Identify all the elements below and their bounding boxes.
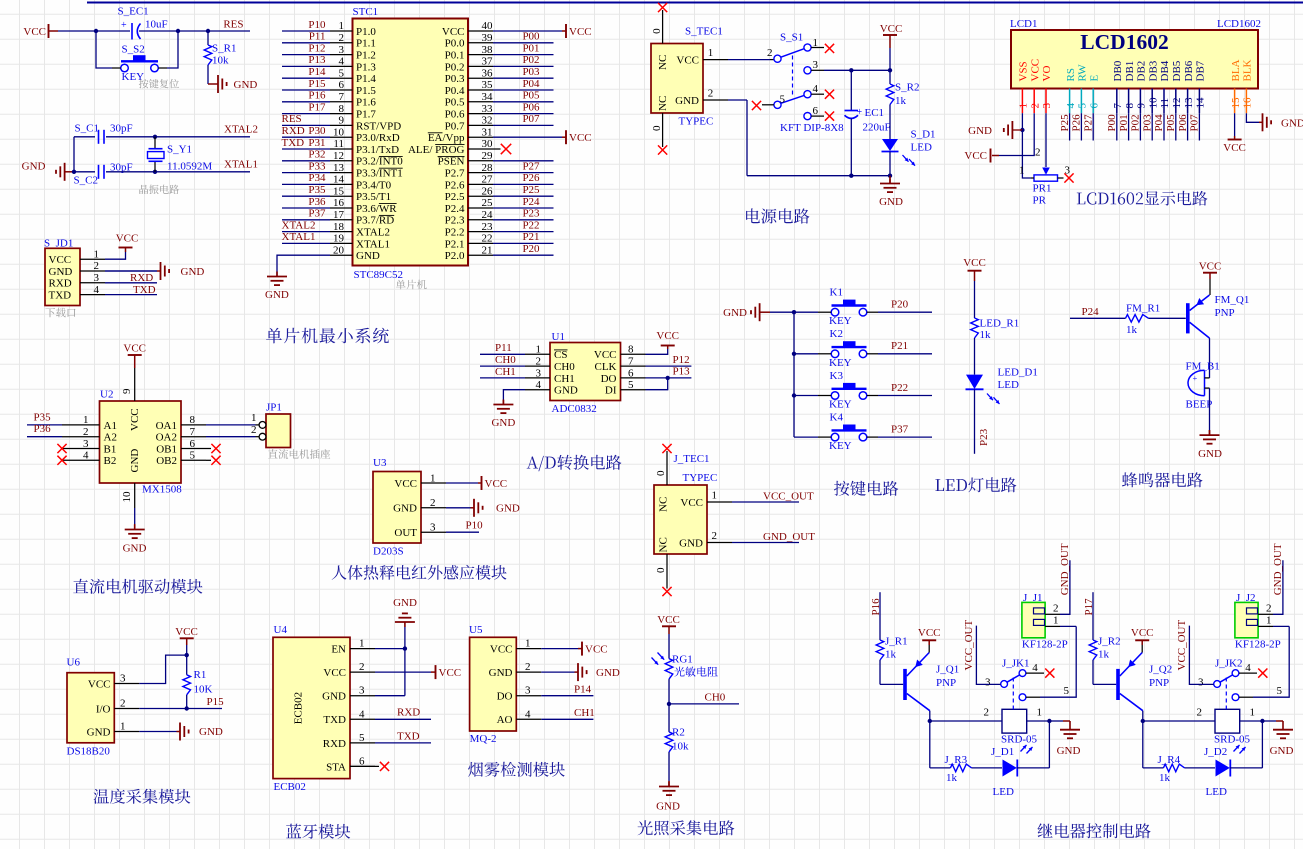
- svg-text:13: 13: [1183, 97, 1195, 109]
- wire: [493, 124, 554, 126]
- svg-text:GND: GND: [1198, 448, 1222, 460]
- transistor J_Q2 PNP: [1116, 669, 1120, 700]
- svg-text:VCC: VCC: [439, 667, 462, 679]
- svg-text:TXD: TXD: [323, 714, 346, 726]
- svg-text:DB3: DB3: [1147, 60, 1159, 81]
- label 继电器控制电路: [1038, 823, 1151, 838]
- no connect: [658, 145, 667, 154]
- wire P12: [646, 365, 692, 367]
- svg-text:1: 1: [525, 638, 531, 650]
- svg-text:18: 18: [333, 221, 345, 233]
- svg-text:28: 28: [482, 162, 494, 174]
- resistor LED_R1 1k: [971, 318, 979, 338]
- ground (reset): [217, 75, 219, 93]
- capacitor EC1 220uF: [850, 70, 852, 110]
- svg-text:VCC_OUT: VCC_OUT: [1176, 619, 1188, 670]
- svg-text:P16: P16: [308, 90, 326, 102]
- label LCD1602显示电路: [1077, 191, 1208, 206]
- svg-text:VCC: VCC: [963, 257, 986, 269]
- pin 3 S_S1: [811, 69, 824, 71]
- svg-text:ECB02: ECB02: [274, 781, 306, 793]
- svg-text:1: 1: [1250, 707, 1256, 719]
- svg-text:7: 7: [190, 426, 196, 438]
- pin 23 STC1: [468, 231, 493, 233]
- wire: [794, 436, 818, 438]
- LED J_D2: [1216, 760, 1230, 777]
- svg-text:0: 0: [655, 470, 667, 476]
- svg-text:P3.2/INT0: P3.2/INT0: [356, 156, 403, 168]
- svg-text:5: 5: [359, 732, 365, 744]
- svg-text:P3.1/TxD: P3.1/TxD: [356, 144, 399, 156]
- svg-text:J_Q2: J_Q2: [1149, 664, 1172, 676]
- svg-text:GND: GND: [181, 266, 205, 278]
- ground (relay 2): [1262, 720, 1276, 722]
- pin 32 STC1: [468, 124, 493, 126]
- wire: [1234, 113, 1236, 136]
- svg-text:RXD: RXD: [397, 707, 420, 719]
- wire: [493, 65, 554, 67]
- svg-text:1: 1: [430, 472, 436, 484]
- svg-text:P1.3: P1.3: [356, 61, 376, 73]
- svg-text:KFT DIP-8X8: KFT DIP-8X8: [780, 122, 844, 134]
- svg-text:1: 1: [120, 721, 126, 733]
- svg-text:XTAL1: XTAL1: [356, 238, 390, 250]
- svg-text:LCD1: LCD1: [1010, 18, 1038, 30]
- svg-text:B1: B1: [104, 443, 117, 455]
- wire: [493, 30, 562, 32]
- svg-text:5: 5: [1277, 685, 1283, 697]
- pin 2 S_JD1: [80, 270, 105, 272]
- wire: [446, 482, 478, 484]
- svg-text:P2.6: P2.6: [445, 179, 465, 191]
- pin 10 STC1: [330, 136, 353, 138]
- wire: [929, 721, 931, 768]
- svg-text:40: 40: [482, 20, 494, 32]
- svg-text:P11: P11: [309, 31, 326, 43]
- pin 2 U1: [525, 365, 550, 367]
- wire: [793, 312, 795, 437]
- svg-text:1k: 1k: [895, 95, 907, 107]
- pin 2 J_TEC1: [707, 542, 732, 544]
- svg-text:DI: DI: [605, 385, 617, 397]
- wire: [728, 99, 747, 101]
- svg-text:39: 39: [482, 32, 494, 44]
- wire VCC_OUT: [976, 626, 1000, 685]
- svg-text:S_S1: S_S1: [780, 32, 803, 44]
- svg-text:AO: AO: [497, 714, 513, 726]
- wire: [167, 31, 178, 68]
- svg-text:9: 9: [121, 388, 133, 394]
- pin 30 STC1: [468, 148, 493, 150]
- svg-text:P12: P12: [308, 42, 325, 54]
- svg-text:5: 5: [780, 93, 786, 105]
- svg-text:8: 8: [1124, 103, 1136, 109]
- pin 5 U1: [621, 389, 646, 391]
- svg-text:S_R2: S_R2: [895, 81, 919, 93]
- svg-text:P01: P01: [1118, 114, 1130, 131]
- no connect: [350, 765, 379, 767]
- label 光照采集电路: [638, 820, 735, 835]
- wire P24: [1070, 317, 1126, 319]
- pin 38 STC1: [468, 54, 493, 56]
- photoresistor RG1 光敏电阻: [665, 659, 673, 680]
- pin 2 J_J: [1045, 613, 1060, 615]
- svg-text:K4: K4: [830, 412, 844, 424]
- svg-text:LCD1602: LCD1602: [1080, 30, 1168, 54]
- wire: [282, 65, 330, 67]
- svg-text:NC: NC: [658, 497, 670, 512]
- wire: [493, 42, 554, 44]
- svg-text:BLA: BLA: [1230, 59, 1242, 81]
- svg-text:P17: P17: [308, 101, 326, 113]
- svg-text:7: 7: [628, 356, 634, 368]
- svg-text:2: 2: [120, 698, 126, 710]
- svg-text:GND: GND: [322, 691, 346, 703]
- svg-text:1: 1: [712, 490, 718, 502]
- pin 4 U5: [516, 718, 541, 720]
- svg-text:RXD: RXD: [49, 278, 72, 290]
- wire: [850, 119, 852, 176]
- svg-text:11: 11: [1159, 98, 1171, 109]
- svg-text:VCC: VCC: [569, 132, 592, 144]
- svg-text:36: 36: [482, 67, 494, 79]
- svg-text:GND: GND: [22, 160, 46, 172]
- svg-text:+: +: [1193, 373, 1198, 383]
- wire: [1027, 720, 1050, 722]
- svg-text:220uF: 220uF: [863, 122, 891, 134]
- wire CH1: [480, 377, 525, 379]
- wire: [282, 54, 330, 56]
- svg-text:RST/VPD: RST/VPD: [356, 120, 401, 132]
- pin 35 STC1: [468, 89, 493, 91]
- svg-text:STA: STA: [326, 761, 346, 773]
- wire: [282, 207, 330, 209]
- svg-text:NC: NC: [657, 96, 669, 111]
- wire: [1142, 721, 1144, 768]
- svg-text:P0.1: P0.1: [445, 50, 465, 62]
- wire: [928, 645, 930, 653]
- wire: [1060, 625, 1076, 627]
- svg-text:RES: RES: [282, 113, 302, 125]
- wire P02: [1139, 113, 1141, 140]
- svg-text:J_D2: J_D2: [1204, 746, 1227, 758]
- svg-text:2: 2: [708, 88, 714, 100]
- svg-text:RXD: RXD: [323, 738, 346, 750]
- svg-text:DO: DO: [601, 373, 617, 385]
- svg-text:VCC: VCC: [569, 26, 592, 38]
- power port VCC (MCU): [565, 130, 567, 144]
- svg-text:P01: P01: [522, 42, 539, 54]
- svg-text:2: 2: [251, 424, 257, 436]
- svg-text:ECB02: ECB02: [293, 692, 305, 724]
- wire: [1230, 767, 1263, 769]
- svg-text:P14: P14: [574, 683, 592, 695]
- svg-text:7: 7: [1112, 103, 1124, 109]
- svg-text:RXD: RXD: [282, 125, 305, 137]
- svg-text:GND: GND: [675, 95, 699, 107]
- svg-text:VCC: VCC: [1029, 59, 1041, 82]
- svg-text:P02: P02: [522, 54, 539, 66]
- svg-text:TXD: TXD: [397, 730, 420, 742]
- svg-text:2: 2: [1029, 103, 1041, 109]
- svg-text:VCC: VCC: [175, 626, 198, 638]
- svg-text:P05: P05: [522, 90, 540, 102]
- svg-text:2: 2: [359, 661, 365, 673]
- svg-text:XTAL2: XTAL2: [282, 219, 316, 231]
- svg-text:LED_D1: LED_D1: [998, 366, 1038, 378]
- svg-text:GND: GND: [393, 503, 417, 515]
- svg-text:1: 1: [83, 414, 89, 426]
- svg-text:15: 15: [1230, 97, 1242, 109]
- svg-text:4: 4: [1245, 662, 1251, 674]
- wire: [541, 648, 578, 650]
- wire: [277, 255, 330, 276]
- svg-text:P2.3: P2.3: [445, 215, 465, 227]
- wire P37: [878, 436, 932, 438]
- label 电源电路: [746, 208, 809, 223]
- svg-text:VCC: VCC: [1131, 627, 1154, 639]
- svg-text:P1.1: P1.1: [356, 38, 376, 50]
- svg-text:P35: P35: [34, 411, 52, 423]
- svg-text:13: 13: [333, 162, 345, 174]
- svg-text:P0.5: P0.5: [445, 97, 465, 109]
- pin 0 J_TEC1 bottom: [666, 554, 668, 589]
- pin 4 S_S1: [811, 93, 824, 95]
- svg-text:J_R1: J_R1: [885, 635, 908, 647]
- pin 4 STC1: [330, 65, 353, 67]
- label 直流电机插座: [268, 449, 330, 459]
- svg-text:VCC: VCC: [680, 497, 703, 509]
- ground (ADC): [502, 400, 504, 405]
- svg-text:10: 10: [333, 126, 345, 138]
- svg-text:TYPEC: TYPEC: [679, 116, 714, 128]
- no connect: [752, 101, 761, 110]
- resistor R1 10K: [183, 675, 191, 695]
- svg-text:10k: 10k: [212, 54, 229, 66]
- svg-text:XTAL1: XTAL1: [282, 231, 316, 243]
- pin 1 U3: [421, 482, 446, 484]
- svg-text:P07: P07: [522, 113, 540, 125]
- svg-text:P37: P37: [891, 424, 909, 436]
- svg-text:1k: 1k: [1098, 649, 1110, 661]
- svg-text:1: 1: [813, 37, 819, 49]
- svg-text:3: 3: [1041, 103, 1053, 109]
- svg-text:EC1: EC1: [865, 107, 885, 119]
- potentiometer PR1 PR: [1034, 175, 1058, 181]
- svg-text:EN: EN: [331, 644, 346, 656]
- svg-text:ALE/ PROG: ALE/ PROG: [408, 144, 465, 156]
- junction: [153, 170, 157, 174]
- wire: [375, 648, 405, 650]
- pin 37 STC1: [468, 65, 493, 67]
- svg-text:P02: P02: [1130, 114, 1142, 131]
- svg-text:+: +: [857, 107, 863, 118]
- pin 14 STC1: [330, 183, 353, 185]
- wire: [646, 378, 668, 390]
- wire: [493, 172, 554, 174]
- wire P05: [1175, 113, 1177, 140]
- svg-text:VCC: VCC: [676, 54, 699, 66]
- svg-text:9: 9: [1136, 103, 1148, 109]
- svg-text:2: 2: [984, 707, 990, 719]
- pin 1 S_S1: [811, 47, 824, 49]
- junction: [849, 174, 853, 178]
- svg-text:R1: R1: [194, 669, 207, 681]
- svg-text:VCC: VCC: [442, 26, 465, 38]
- wire: [1209, 338, 1211, 378]
- svg-text:D203S: D203S: [373, 545, 404, 557]
- svg-text:P12: P12: [673, 354, 690, 366]
- wire P17: [1092, 592, 1094, 640]
- svg-text:GND: GND: [489, 667, 513, 679]
- svg-text:31: 31: [482, 126, 493, 138]
- svg-text:5: 5: [628, 379, 634, 391]
- wire: [972, 767, 1002, 769]
- svg-text:3: 3: [1198, 677, 1204, 689]
- pin 12 STC1: [330, 160, 353, 162]
- no connect: [825, 44, 834, 53]
- svg-text:J_R2: J_R2: [1098, 635, 1121, 647]
- pin 39 STC1: [468, 42, 493, 44]
- svg-text:P30: P30: [308, 125, 326, 137]
- svg-text:VCC: VCC: [490, 644, 513, 656]
- svg-text:P24: P24: [522, 196, 540, 208]
- sheet border top: [87, 2, 1303, 4]
- svg-text:P31: P31: [308, 137, 325, 149]
- svg-text:VCC_OUT: VCC_OUT: [963, 619, 975, 670]
- junction: [176, 29, 180, 33]
- resistor J_R3 1k: [950, 764, 971, 772]
- wire: [105, 252, 126, 259]
- transistor J_Q1 PNP: [903, 669, 907, 700]
- svg-text:U4: U4: [274, 624, 288, 636]
- svg-text:P25: P25: [1059, 114, 1071, 132]
- power port VCC (MCU): [565, 24, 567, 38]
- svg-text:VCC: VCC: [394, 478, 417, 490]
- pin 19 STC1: [330, 242, 353, 244]
- svg-text:P26: P26: [522, 172, 540, 184]
- svg-text:BEEP: BEEP: [1186, 399, 1213, 411]
- label 按键电路: [834, 481, 898, 496]
- wire: [282, 136, 330, 138]
- svg-text:SRD-05: SRD-05: [1214, 733, 1251, 745]
- svg-text:P35: P35: [308, 184, 326, 196]
- svg-text:S_C2: S_C2: [74, 174, 98, 186]
- pin 1 J_J: [1045, 625, 1060, 627]
- wire: [1017, 767, 1050, 769]
- pin 3 U1: [525, 377, 550, 379]
- svg-text:1k: 1k: [1159, 772, 1171, 784]
- svg-text:27: 27: [482, 174, 494, 186]
- svg-text:J_R3: J_R3: [945, 754, 968, 766]
- pin 1 U2: [62, 424, 100, 426]
- svg-text:FM_Q1: FM_Q1: [1215, 294, 1250, 306]
- label 蜂鸣器电路: [1122, 472, 1203, 487]
- svg-text:STC1: STC1: [353, 6, 379, 18]
- svg-text:GND: GND: [1270, 745, 1294, 757]
- wire GND_OUT: [732, 542, 799, 544]
- pin 1 U1: [525, 353, 550, 355]
- svg-text:PNP: PNP: [1215, 307, 1235, 319]
- svg-text:S_S2: S_S2: [122, 44, 145, 56]
- wire: [1021, 113, 1023, 130]
- pin 8 U2: [181, 424, 206, 426]
- svg-text:1k: 1k: [885, 649, 897, 661]
- svg-text:1k: 1k: [946, 772, 958, 784]
- svg-text:22: 22: [482, 233, 493, 245]
- svg-text:P2.2: P2.2: [445, 227, 465, 239]
- svg-text:PR1: PR1: [1033, 183, 1052, 195]
- wire: [493, 207, 554, 209]
- LED S_D1: [882, 139, 898, 151]
- pin 0 S_TEC1 bottom: [662, 113, 664, 147]
- junction: [888, 68, 892, 72]
- svg-text:17: 17: [333, 209, 345, 221]
- wire P01: [1128, 113, 1130, 140]
- svg-text:P1.0: P1.0: [356, 26, 376, 38]
- svg-text:P26: P26: [1071, 114, 1083, 132]
- wire: [282, 113, 330, 115]
- svg-text:GND: GND: [393, 597, 417, 609]
- pin 3 U2: [62, 448, 100, 450]
- wire P25: [1069, 113, 1071, 140]
- junction: [792, 310, 796, 314]
- svg-text:LED: LED: [911, 142, 932, 154]
- svg-text:KF128-2P: KF128-2P: [1022, 638, 1068, 650]
- wire: [999, 113, 1034, 155]
- svg-text:J_R4: J_R4: [1158, 754, 1181, 766]
- pin 7 U2: [181, 436, 206, 438]
- svg-text:P0.6: P0.6: [445, 109, 465, 121]
- svg-text:VCC: VCC: [918, 627, 941, 639]
- svg-text:29: 29: [482, 150, 494, 162]
- wire: [889, 105, 891, 140]
- svg-text:30pF: 30pF: [110, 122, 133, 134]
- svg-text:5: 5: [1077, 103, 1089, 109]
- svg-text:10uF: 10uF: [145, 19, 168, 31]
- svg-text:P0.4: P0.4: [445, 85, 465, 97]
- pin 26 STC1: [468, 195, 493, 197]
- wire VCC_OUT: [732, 501, 799, 503]
- pin 10 U2 GND: [134, 483, 136, 508]
- svg-text:U5: U5: [469, 624, 483, 636]
- svg-text:3: 3: [339, 44, 345, 56]
- svg-text:JP1: JP1: [266, 401, 282, 413]
- svg-text:VCC_OUT: VCC_OUT: [763, 490, 814, 502]
- svg-text:P2.4: P2.4: [445, 203, 465, 215]
- wire: [282, 160, 330, 162]
- junction: [792, 393, 796, 397]
- svg-text:GND: GND: [596, 667, 620, 679]
- svg-text:LED: LED: [998, 379, 1019, 391]
- svg-text:P2.7: P2.7: [445, 168, 465, 180]
- wire: [1209, 388, 1211, 430]
- svg-text:32: 32: [482, 115, 493, 127]
- wire: [375, 695, 405, 697]
- wire: [282, 172, 330, 174]
- pin 1 U4: [350, 648, 375, 650]
- svg-text:A2: A2: [104, 432, 117, 444]
- svg-text:GND: GND: [656, 801, 680, 813]
- pin 5 J_JK: [1239, 696, 1253, 698]
- label 按键复位: [139, 79, 179, 88]
- wire P27: [1092, 113, 1094, 140]
- svg-text:4: 4: [1065, 103, 1077, 109]
- svg-text:VO: VO: [1041, 66, 1053, 82]
- svg-text:K2: K2: [830, 328, 843, 340]
- svg-text:NC: NC: [657, 55, 669, 70]
- svg-text:VCC: VCC: [964, 150, 987, 162]
